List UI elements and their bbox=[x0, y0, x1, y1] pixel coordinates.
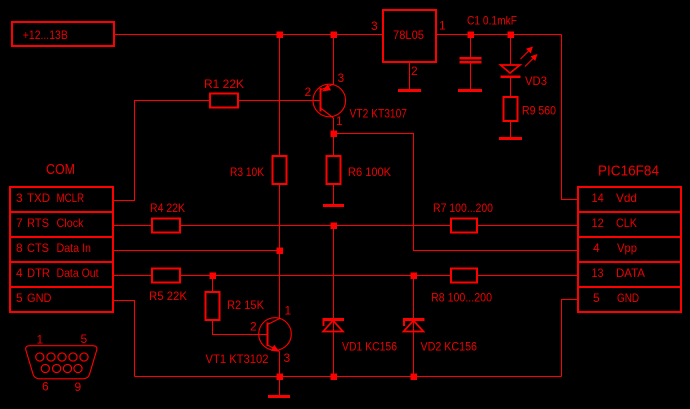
ground symbol main bbox=[279, 377, 281, 397]
wire CTS row to Vpp node bbox=[113, 250, 280, 252]
svg-text:VD1 KC156: VD1 KC156 bbox=[342, 340, 397, 354]
svg-text:1: 1 bbox=[439, 19, 446, 33]
transistor VT1 KT3102 bbox=[259, 318, 292, 351]
ground under 78L05 bbox=[398, 89, 421, 92]
LED VD3 bbox=[510, 35, 512, 66]
svg-text:COM: COM bbox=[46, 161, 75, 178]
wire R8 to DATA pin bbox=[477, 275, 578, 277]
node junction R2 branch (212,275) bbox=[209, 272, 216, 279]
svg-text:PIC16F84: PIC16F84 bbox=[598, 163, 659, 180]
IC PIC16F84 box pin 12 CLK bbox=[578, 212, 681, 237]
svg-text:R6 100K: R6 100K bbox=[348, 165, 391, 179]
transistor VT2 KT3107 bbox=[313, 84, 346, 117]
svg-text:2: 2 bbox=[411, 64, 418, 78]
ground under C1 bbox=[458, 89, 482, 92]
svg-text:VT1 KT3102: VT1 KT3102 bbox=[206, 352, 269, 366]
DB9 pin hole 7 bbox=[53, 364, 61, 372]
svg-text:Vpp: Vpp bbox=[617, 241, 637, 255]
svg-text:5: 5 bbox=[16, 291, 23, 305]
node junction VT2 collector (333,133.5) bbox=[330, 130, 337, 137]
svg-text:6: 6 bbox=[42, 380, 49, 394]
node junction VD1 (333,376.5) bbox=[330, 373, 337, 380]
svg-text:R2 15K: R2 15K bbox=[227, 298, 264, 312]
zener diode VD2 KC156 bbox=[413, 276, 415, 377]
LED arrow 2 bbox=[525, 57, 535, 67]
power source box +12...13V bbox=[12, 22, 114, 46]
svg-text:5: 5 bbox=[81, 332, 88, 346]
wire R4 to R7 bbox=[180, 225, 451, 227]
wire top bus left bbox=[114, 34, 383, 36]
resistor R4 22K bbox=[152, 219, 180, 233]
svg-text:C1 0.1mkF: C1 0.1mkF bbox=[467, 14, 517, 28]
node junction VT1 emitter (279,376.5) bbox=[276, 373, 283, 380]
IC PIC16F84 box pin 4 Vpp bbox=[578, 237, 681, 262]
svg-text:R5 22K: R5 22K bbox=[149, 289, 187, 303]
svg-text:Data Out: Data Out bbox=[57, 266, 100, 280]
wire VT2 emitter up bbox=[333, 35, 335, 85]
connector DB9 body bbox=[26, 346, 97, 379]
wire COM GND row to ground bus bbox=[113, 301, 135, 377]
node junction at VT2 emitter branch (333,34) bbox=[330, 31, 337, 38]
wire RTS row to R4 bbox=[113, 225, 152, 227]
regulator U1 78L05 bbox=[383, 10, 436, 62]
node junction VD2 (413.5,376.5) bbox=[410, 373, 417, 380]
wire PIC GND row to ground bus bbox=[562, 300, 579, 377]
DB9 pin hole 8 bbox=[63, 364, 71, 372]
connector COM box row 8 CTS Data In bbox=[10, 237, 113, 262]
svg-text:R7 100...200: R7 100...200 bbox=[433, 201, 493, 215]
wire top bus right bbox=[436, 34, 562, 36]
resistor R5 22K bbox=[152, 269, 180, 283]
svg-text:2: 2 bbox=[305, 85, 312, 99]
node junction Vpp/CTS (279,249.5) bbox=[276, 247, 283, 254]
svg-text:VD3: VD3 bbox=[525, 74, 547, 88]
resistor R7 100...200 bbox=[451, 219, 477, 233]
DB9 pin hole 5 bbox=[80, 353, 88, 361]
IC PIC16F84 box pin 13 DATA bbox=[578, 262, 681, 287]
connector COM box row 5 GND bbox=[10, 287, 113, 312]
resistor R8 100...200 bbox=[451, 269, 477, 283]
wire R3 to Vpp node bbox=[279, 184, 281, 251]
connector COM box row 7 RTS Clock bbox=[10, 212, 113, 237]
wire DTR row to R5 bbox=[113, 275, 152, 277]
svg-text:4: 4 bbox=[593, 241, 600, 255]
wire VT2 collector to Vpp pin bbox=[334, 134, 579, 251]
svg-text:14: 14 bbox=[592, 191, 605, 205]
svg-text:+12...13В: +12...13В bbox=[23, 28, 68, 42]
capacitor C1 bbox=[470, 35, 472, 58]
wire R7 to CLK pin bbox=[477, 225, 578, 227]
connector COM box row 3 TXD MCLR bbox=[10, 187, 113, 212]
zener diode VD1 KC156 bbox=[333, 226, 335, 377]
wire R5 to R8 bbox=[180, 275, 451, 277]
svg-text:MCLR: MCLR bbox=[57, 191, 85, 205]
svg-text:3: 3 bbox=[284, 351, 291, 365]
wire VT1 collector up to Vpp node bbox=[279, 251, 281, 319]
wire +12V down to R3 bbox=[279, 35, 281, 157]
svg-text:GND: GND bbox=[27, 291, 52, 305]
wire ground bus bbox=[135, 376, 562, 378]
DB9 pin hole 1 bbox=[36, 353, 44, 361]
IC PIC16F84 box pin 14 Vdd bbox=[578, 187, 681, 212]
svg-text:4: 4 bbox=[16, 266, 23, 280]
wire VT2 collector down bbox=[333, 118, 335, 134]
svg-text:CLK: CLK bbox=[616, 216, 637, 230]
DB9 pin hole 4 bbox=[69, 353, 77, 361]
svg-text:78L05: 78L05 bbox=[393, 28, 424, 42]
svg-text:Vdd: Vdd bbox=[616, 191, 637, 205]
node junction at R3 branch (279,34) bbox=[276, 31, 283, 38]
svg-text:1: 1 bbox=[37, 333, 44, 347]
ground under R6 bbox=[323, 204, 344, 207]
resistor R6 100K bbox=[333, 134, 335, 157]
svg-text:1: 1 bbox=[336, 114, 343, 128]
svg-text:8: 8 bbox=[16, 241, 23, 255]
LED arrow 1 bbox=[521, 50, 531, 60]
DB9 pin hole 3 bbox=[58, 353, 66, 361]
svg-text:R8 100...200: R8 100...200 bbox=[431, 291, 492, 305]
resistor R1 22K bbox=[210, 94, 238, 108]
resistor R9 bbox=[504, 97, 518, 121]
svg-text:R3 10K: R3 10K bbox=[230, 165, 264, 179]
svg-text:R1 22K: R1 22K bbox=[204, 77, 244, 91]
svg-text:3: 3 bbox=[371, 19, 378, 33]
wire TXD to R1 bbox=[113, 101, 210, 201]
resistor R3 10K bbox=[273, 156, 287, 184]
svg-text:VD2 KC156: VD2 KC156 bbox=[421, 340, 478, 354]
wire Vdd elbow bbox=[562, 35, 579, 200]
wire VT1 emitter down to ground bus bbox=[279, 352, 281, 377]
node junction VD1 (333,225) bbox=[330, 222, 337, 229]
node junction VD2 branch (413.5,275) bbox=[410, 272, 417, 279]
svg-text:Data In: Data In bbox=[57, 241, 92, 255]
wire 78L05 pin2 to ground bbox=[409, 62, 411, 89]
connector COM box row 4 DTR Data Out bbox=[10, 262, 113, 287]
svg-text:VT2 KT3107: VT2 KT3107 bbox=[350, 107, 408, 121]
DB9 pin hole 9 bbox=[74, 364, 82, 372]
svg-text:Clock: Clock bbox=[57, 216, 85, 230]
DB9 pin hole 2 bbox=[47, 353, 55, 361]
resistor R2 15K bbox=[212, 276, 214, 293]
wire R2 to VT1 base bbox=[213, 320, 268, 335]
svg-text:3: 3 bbox=[16, 191, 23, 205]
svg-text:7: 7 bbox=[16, 216, 23, 230]
svg-text:RTS: RTS bbox=[27, 216, 49, 230]
svg-text:R9 560: R9 560 bbox=[522, 104, 556, 118]
svg-text:CTS: CTS bbox=[27, 241, 49, 255]
DB9 pin hole 6 bbox=[41, 364, 49, 372]
wire R1 to VT2 base bbox=[238, 100, 320, 102]
svg-text:2: 2 bbox=[250, 320, 257, 334]
node junction at C1 (470,34) bbox=[467, 31, 474, 38]
svg-text:3: 3 bbox=[338, 71, 345, 85]
svg-text:R4 22K: R4 22K bbox=[150, 201, 185, 215]
svg-text:5: 5 bbox=[593, 291, 600, 305]
svg-text:13: 13 bbox=[592, 266, 604, 280]
svg-text:1: 1 bbox=[285, 304, 292, 318]
svg-text:12: 12 bbox=[592, 216, 605, 230]
svg-text:DTR: DTR bbox=[27, 266, 50, 280]
ground under R9 bbox=[499, 137, 522, 140]
IC PIC16F84 box pin 5 GND bbox=[578, 287, 681, 312]
svg-text:DATA: DATA bbox=[616, 266, 645, 280]
svg-text:TXD: TXD bbox=[27, 191, 50, 205]
svg-text:9: 9 bbox=[75, 380, 82, 394]
svg-text:GND: GND bbox=[617, 291, 639, 305]
node junction at VD3 (510,34) bbox=[507, 31, 514, 38]
